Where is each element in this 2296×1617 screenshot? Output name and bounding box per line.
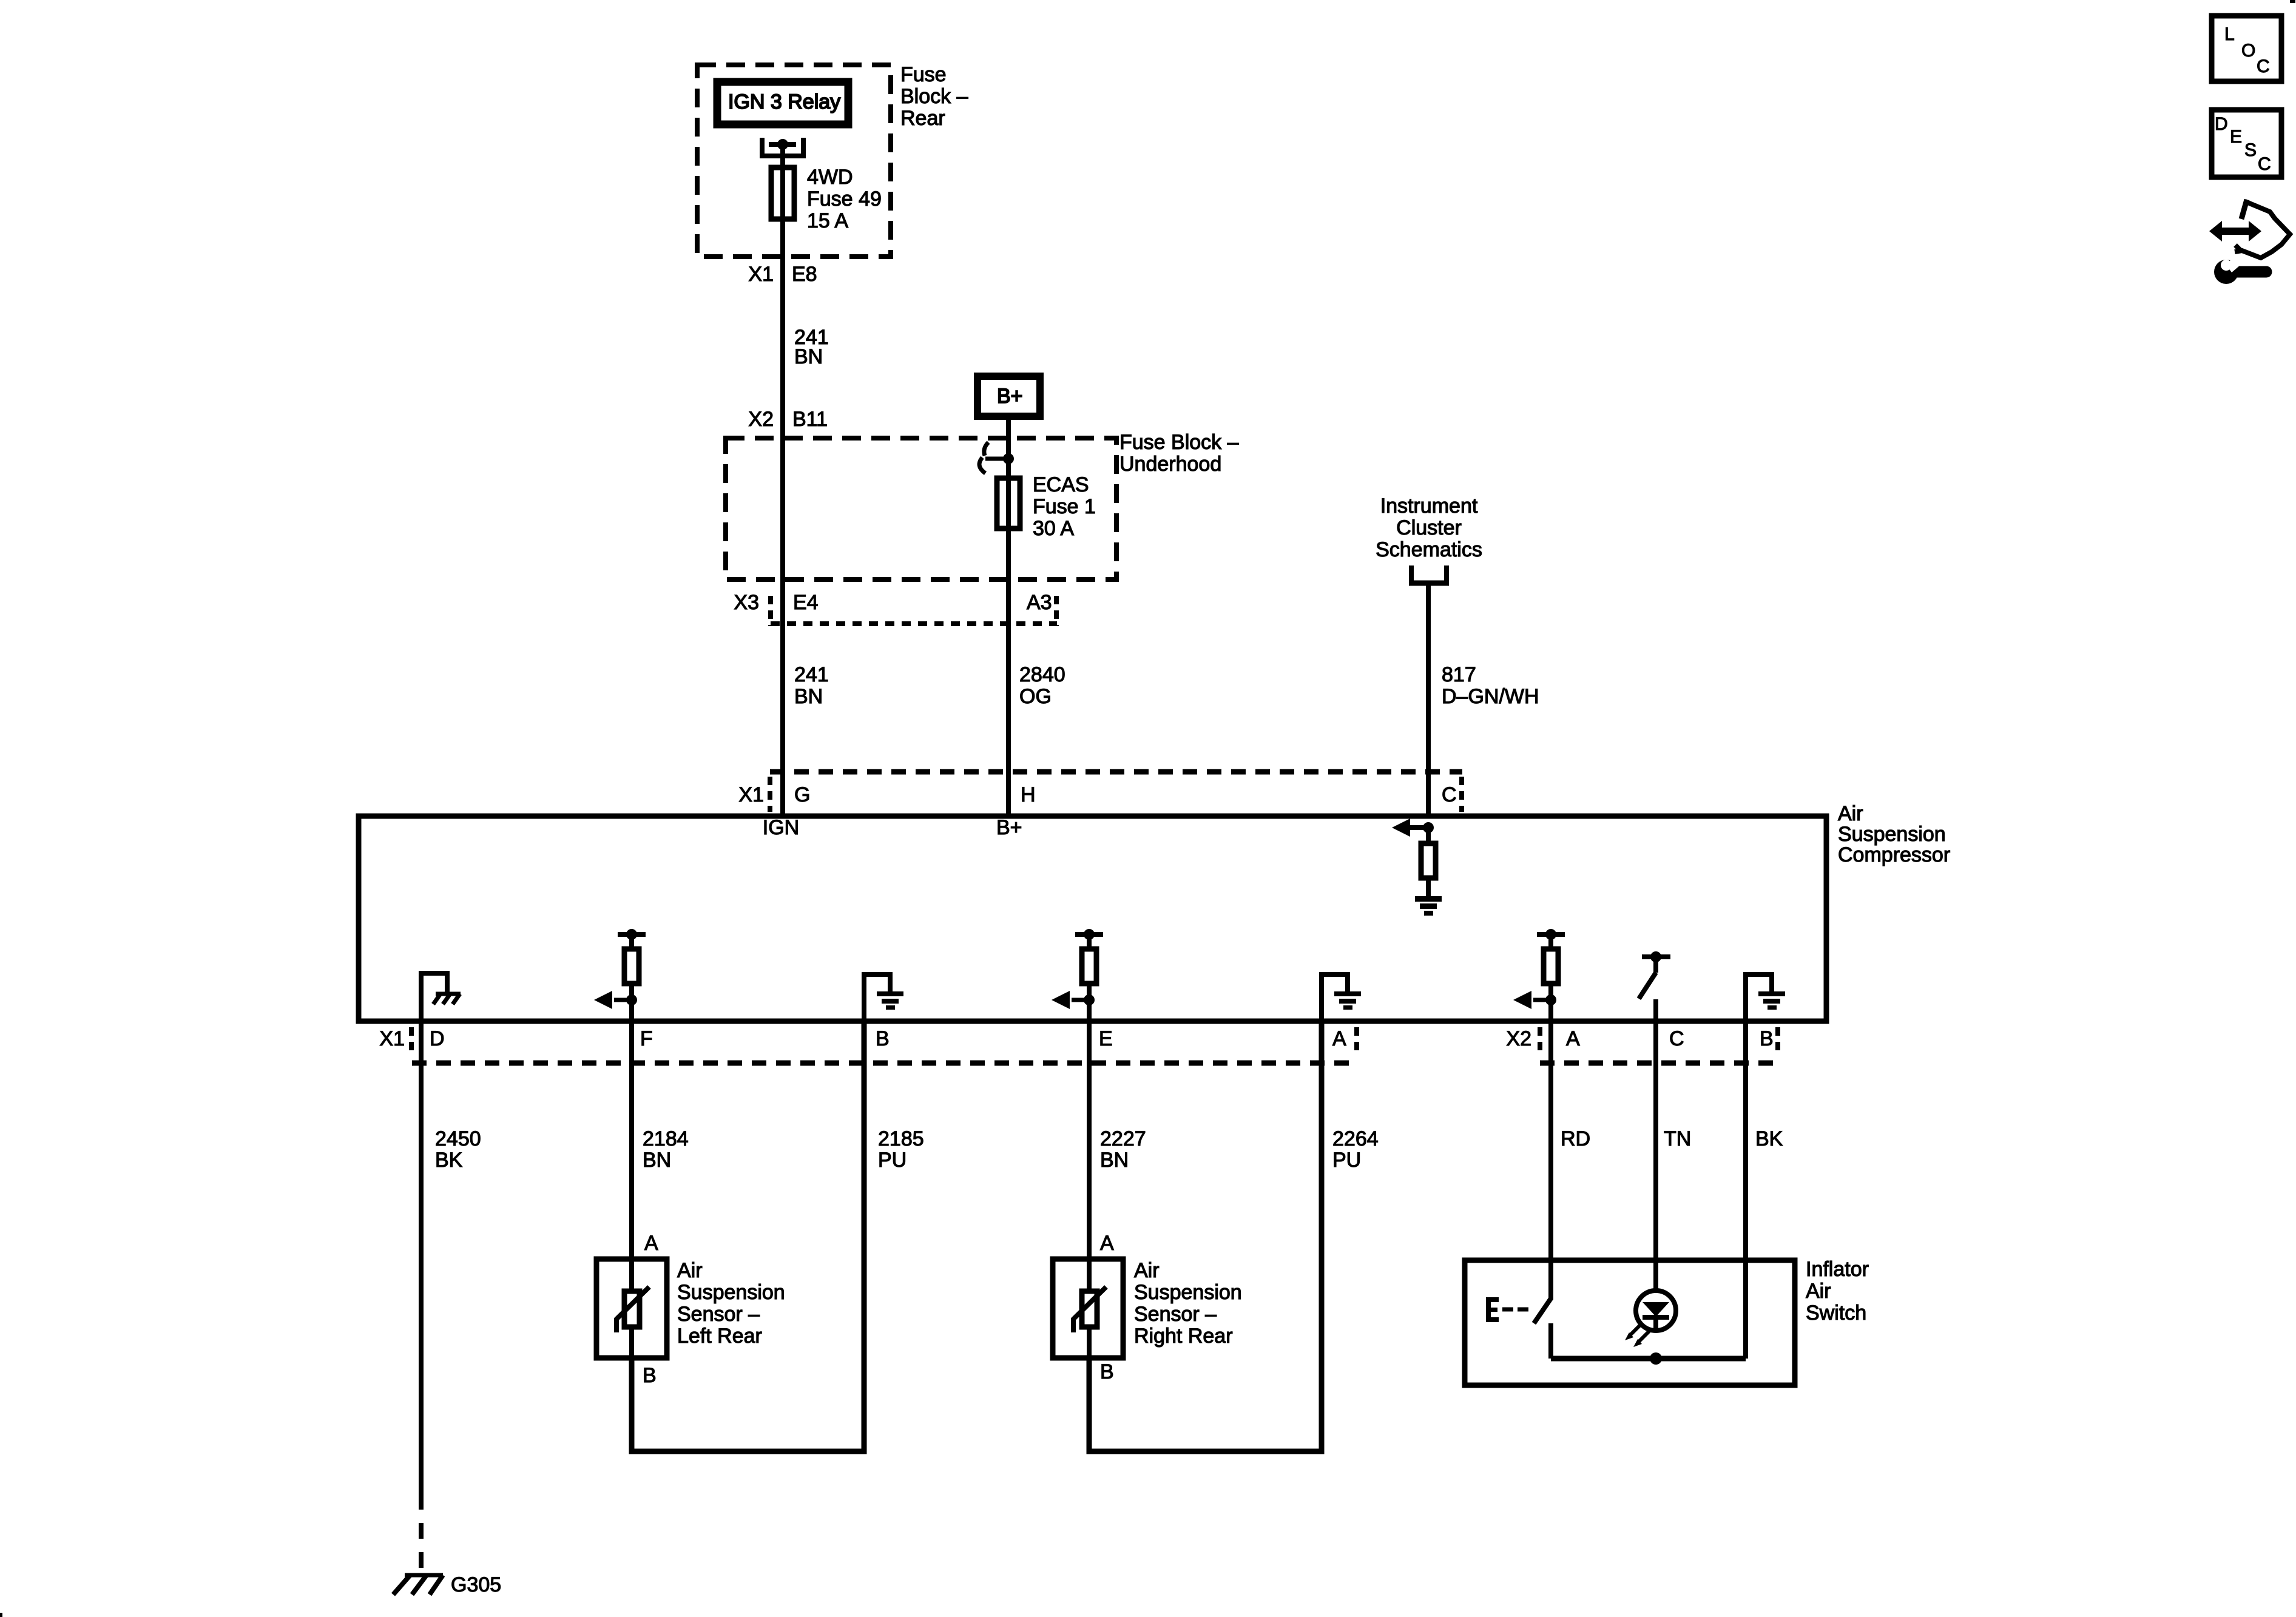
svg-text:O: O	[2241, 41, 2255, 61]
ground: compressor internal at pin X2-B (earth)	[1746, 974, 1772, 1021]
wire 2450 BK: pin D to G305	[419, 1021, 424, 1494]
svg-text:Fuse: Fuse	[900, 63, 947, 86]
svg-text:D–GN/WH: D–GN/WH	[1442, 685, 1539, 708]
component box: Air Suspension Sensor - Left Rear	[596, 1259, 667, 1358]
svg-text:A: A	[1566, 1027, 1580, 1050]
relay box: IGN 3 Relay	[717, 82, 848, 124]
node: C-pin junction with left arrow	[1423, 822, 1434, 833]
mechanical actuator symbol E with dashed link	[1486, 1297, 1491, 1322]
svg-text:241: 241	[794, 663, 829, 686]
svg-text:Sensor –: Sensor –	[1134, 1303, 1217, 1326]
svg-text:Compressor: Compressor	[1838, 843, 1950, 866]
wire 2227 BN: pin E to right sensor pin A	[1087, 1021, 1092, 1261]
svg-text:C: C	[2258, 154, 2271, 174]
svg-text:F: F	[640, 1027, 653, 1050]
battery feed box: B+	[977, 376, 1040, 416]
sensor element (variable resistor, left)	[629, 1259, 634, 1291]
ground: compressor internal at pin A (earth)	[1322, 974, 1348, 1021]
svg-text:Rear: Rear	[900, 107, 945, 130]
wire 2184 BN: pin F to left sensor pin A	[629, 1021, 634, 1261]
svg-text:15 A: 15 A	[807, 209, 848, 232]
sensor feed: resistor with wiper arrow at pin E	[1075, 932, 1103, 937]
component box: Inflator Air Switch	[1465, 1260, 1795, 1385]
svg-text:D: D	[430, 1027, 445, 1050]
svg-text:D: D	[2215, 114, 2228, 134]
wire 2264 PU: pin A to right sensor pin B (loop)	[1089, 1021, 1322, 1451]
wire TN: pin X2-C to inflator LED	[1653, 1021, 1658, 1292]
svg-text:E: E	[2230, 127, 2242, 147]
switch blade and contact (inflator)	[1534, 1298, 1551, 1323]
wire 2185 PU: pin B to left sensor pin B (loop)	[632, 1021, 864, 1451]
svg-text:Left Rear: Left Rear	[677, 1325, 762, 1348]
svg-text:ECAS: ECAS	[1033, 473, 1089, 496]
sensor feed: resistor with wiper arrow at pin F	[618, 932, 646, 937]
svg-text:H: H	[1021, 783, 1036, 806]
ground: compressor internal (C)	[1415, 896, 1442, 902]
icon: DESC box	[2212, 110, 2281, 177]
svg-text:Fuse 1: Fuse 1	[1033, 495, 1096, 518]
fuse holder clip (underhood) with junction dot	[984, 442, 988, 456]
svg-text:Right Rear: Right Rear	[1134, 1325, 1233, 1348]
svg-text:Schematics: Schematics	[1376, 538, 1482, 561]
svg-text:Air: Air	[1806, 1280, 1831, 1303]
svg-text:Cluster: Cluster	[1396, 516, 1462, 539]
svg-text:BN: BN	[794, 685, 823, 708]
svg-text:Air: Air	[1838, 802, 1863, 825]
svg-text:2185: 2185	[878, 1127, 924, 1150]
ground: compressor internal at pin B (earth)	[864, 974, 890, 1021]
connector X1 (compressor bottom) dashed line	[412, 1061, 1357, 1066]
svg-text:2184: 2184	[643, 1127, 689, 1150]
svg-text:2264: 2264	[1332, 1127, 1379, 1150]
svg-text:L: L	[2224, 24, 2235, 44]
svg-text:2450: 2450	[435, 1127, 481, 1150]
connector X3 dotted line	[771, 621, 1057, 626]
svg-text:B+: B+	[997, 385, 1023, 408]
svg-text:G: G	[794, 783, 810, 806]
wire 2840 OG: B+ box through ECAS fuse to compressor pin H	[1006, 416, 1011, 819]
svg-text:TN: TN	[1664, 1127, 1691, 1150]
svg-text:S: S	[2244, 140, 2257, 160]
svg-text:Air: Air	[1134, 1259, 1160, 1282]
feed: resistor with wiper arrow at pin X2-A	[1537, 932, 1565, 937]
LED indicator (inflator light)	[1636, 1291, 1676, 1331]
svg-text:Fuse 49: Fuse 49	[807, 187, 882, 211]
svg-text:2227: 2227	[1100, 1127, 1146, 1150]
svg-text:B: B	[876, 1027, 890, 1050]
svg-text:A: A	[644, 1232, 658, 1255]
component box: Air Suspension Compressor	[359, 816, 1826, 1021]
connector X1 (top) tick marks	[768, 777, 772, 812]
svg-text:C: C	[2257, 56, 2270, 76]
svg-text:Suspension: Suspension	[1134, 1281, 1242, 1304]
icon: connector repair (arrow, terminal, wrench)	[2209, 221, 2261, 241]
wire RD: pin X2-A to inflator switch	[1548, 1021, 1553, 1300]
svg-text:BN: BN	[643, 1149, 671, 1172]
svg-text:Suspension: Suspension	[677, 1281, 785, 1304]
icon: LOC box	[2212, 16, 2281, 81]
svg-text:Block –: Block –	[900, 85, 968, 108]
svg-text:2840: 2840	[1019, 663, 1065, 686]
svg-text:BK: BK	[435, 1149, 463, 1172]
svg-text:B: B	[643, 1364, 657, 1387]
svg-text:X1: X1	[738, 783, 764, 806]
svg-text:BN: BN	[794, 345, 823, 368]
bus: switch common to BK with junction	[1551, 1356, 1746, 1362]
svg-text:B11: B11	[792, 408, 828, 431]
chassis ground: compressor internal at pin D	[421, 973, 447, 1021]
off-page bracket (instrument cluster)	[1409, 565, 1414, 584]
pressure switch: compressor internal at pin X2-C	[1642, 954, 1670, 959]
svg-text:C: C	[1442, 783, 1457, 806]
wire 817 D-GN/WH to compressor pin C	[1426, 583, 1431, 819]
svg-text:B: B	[1100, 1360, 1114, 1383]
svg-text:E: E	[1099, 1027, 1113, 1050]
connector X1 (compressor top) dashed line	[770, 769, 1462, 775]
fuse block enclosure: Fuse Block - Rear (dashed)	[697, 65, 891, 257]
svg-text:RD: RD	[1561, 1127, 1590, 1150]
wire: relay output through 4WD fuse to pin E8	[780, 144, 785, 819]
svg-text:Switch: Switch	[1806, 1301, 1866, 1325]
svg-text:G305: G305	[451, 1573, 501, 1596]
connector tick marks (bottom)	[409, 1027, 414, 1053]
svg-text:Instrument: Instrument	[1380, 495, 1478, 518]
svg-text:A: A	[1332, 1027, 1346, 1050]
svg-text:Fuse Block –: Fuse Block –	[1119, 431, 1239, 454]
svg-text:Underhood: Underhood	[1119, 453, 1221, 476]
svg-text:X3: X3	[734, 591, 759, 614]
svg-text:Suspension: Suspension	[1838, 823, 1946, 846]
svg-text:4WD: 4WD	[807, 166, 853, 189]
svg-text:IGN 3 Relay: IGN 3 Relay	[728, 90, 840, 113]
fuse F1: ECAS Fuse 1 30 A	[997, 478, 1020, 528]
fuse block enclosure: Fuse Block - Underhood (dashed)	[726, 438, 1116, 579]
svg-text:X1: X1	[379, 1027, 405, 1050]
svg-text:Sensor –: Sensor –	[677, 1303, 760, 1326]
svg-text:BK: BK	[1755, 1127, 1783, 1150]
svg-text:OG: OG	[1019, 685, 1052, 708]
svg-text:E4: E4	[793, 591, 819, 614]
sensor element (variable resistor, right)	[1087, 1259, 1092, 1291]
component box: Air Suspension Sensor - Right Rear	[1053, 1259, 1123, 1358]
page artifact dot	[0, 1613, 2, 1617]
svg-text:X1: X1	[748, 263, 774, 286]
page artifact mark top right	[2290, 0, 2295, 3]
svg-text:A: A	[1100, 1232, 1114, 1255]
svg-text:X2: X2	[1506, 1027, 1531, 1050]
connector X2 (compressor bottom) dashed line	[1540, 1061, 1778, 1066]
ground G305 (chassis)	[405, 1573, 443, 1578]
svg-text:PU: PU	[1332, 1149, 1361, 1172]
svg-text:IGN: IGN	[763, 816, 799, 839]
svg-text:C: C	[1669, 1027, 1684, 1050]
wire BK: pin X2-B to inflator switch common	[1743, 1021, 1748, 1359]
fuse F49: 4WD Fuse 49 15 A	[771, 167, 794, 219]
svg-text:X2: X2	[748, 408, 774, 431]
svg-text:Inflator: Inflator	[1806, 1258, 1869, 1281]
svg-text:A3: A3	[1027, 591, 1052, 614]
fuse holder clip (rear) with junction dot	[760, 138, 765, 158]
svg-text:30 A: 30 A	[1033, 517, 1074, 540]
svg-text:BN: BN	[1100, 1149, 1129, 1172]
svg-text:PU: PU	[878, 1149, 907, 1172]
svg-text:Air: Air	[677, 1259, 703, 1282]
svg-text:B: B	[1760, 1027, 1774, 1050]
svg-text:B+: B+	[996, 816, 1022, 839]
svg-text:817: 817	[1442, 663, 1476, 686]
connector X3 tick marks	[768, 596, 773, 626]
resistor: compressor internal (C feed)	[1426, 828, 1431, 843]
LED light arrows	[1629, 1325, 1641, 1336]
svg-text:E8: E8	[792, 263, 817, 286]
